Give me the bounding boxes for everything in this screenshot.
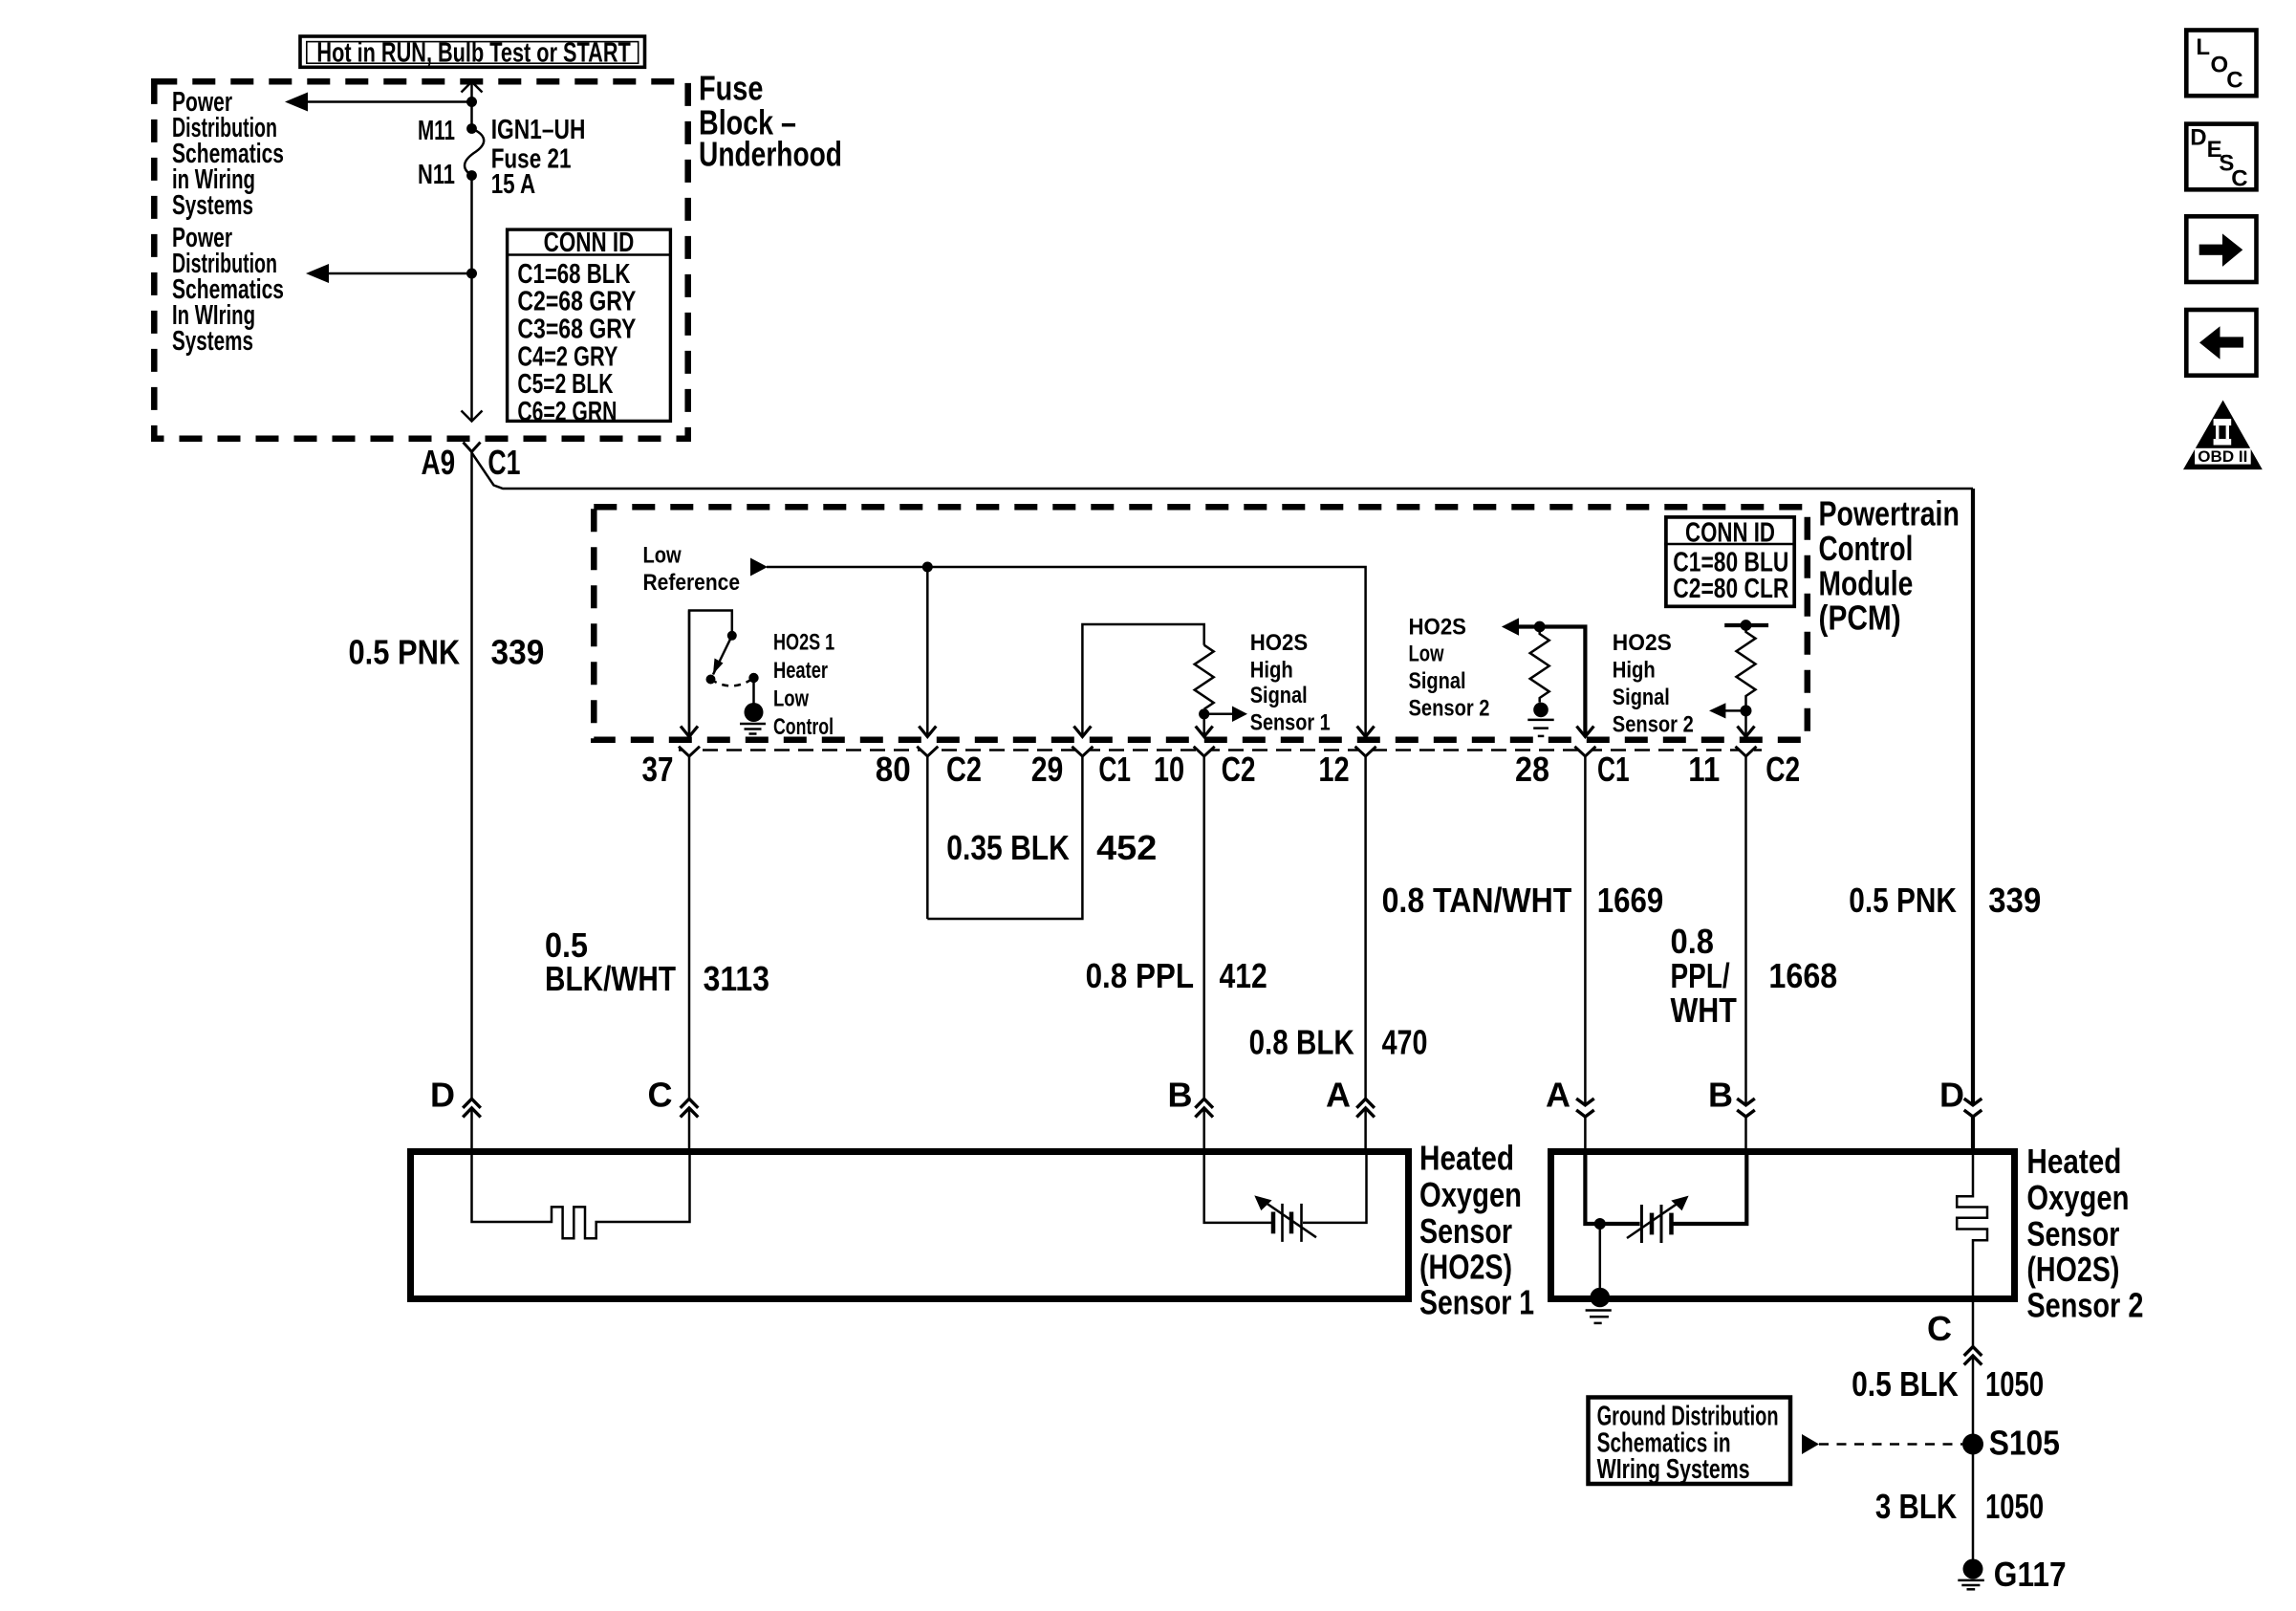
wire: R1 tap arrow out bbox=[1204, 707, 1247, 723]
svg-text:Signal: Signal bbox=[1409, 668, 1466, 694]
svg-text:HO2S 1: HO2S 1 bbox=[773, 630, 834, 656]
svg-text:Heated: Heated bbox=[2026, 1142, 2121, 1181]
svg-text:Powertrain: Powertrain bbox=[1819, 494, 1960, 533]
icon OBD II triangle bbox=[2183, 401, 2263, 470]
power distribution note 2 bbox=[172, 223, 284, 357]
svg-text:D: D bbox=[2190, 124, 2206, 150]
wire: branch arrow to power distribution 1 bbox=[285, 93, 472, 112]
ground G117 bbox=[1958, 1555, 2066, 1594]
icon LOC bbox=[2186, 31, 2256, 97]
connector A9 C1 inline bbox=[422, 443, 521, 483]
svg-text:C2=80 CLR: C2=80 CLR bbox=[1673, 574, 1788, 604]
label 0.5 BLK/WHT 3113 bbox=[545, 925, 769, 998]
svg-text:11: 11 bbox=[1688, 750, 1720, 789]
transistor switch HO2S1 heater low control bbox=[681, 611, 764, 737]
label HO2S High Signal Sensor 1 bbox=[1250, 630, 1331, 736]
svg-text:(PCM): (PCM) bbox=[1819, 599, 1901, 638]
ground distribution note box bbox=[1589, 1398, 1791, 1486]
svg-text:Systems: Systems bbox=[172, 190, 253, 221]
svg-text:470: 470 bbox=[1382, 1022, 1428, 1061]
power distribution note 1 bbox=[172, 87, 284, 221]
svg-text:0.5 BLK: 0.5 BLK bbox=[1852, 1364, 1959, 1404]
resistor R2 HO2S low signal sensor2 bbox=[1530, 627, 1549, 703]
svg-text:N11: N11 bbox=[418, 160, 455, 190]
svg-text:Control: Control bbox=[773, 714, 834, 740]
svg-text:Module: Module bbox=[1819, 563, 1914, 602]
wire: R3 tap arrow out bbox=[1709, 703, 1746, 718]
svg-text:37: 37 bbox=[642, 750, 674, 789]
svg-text:C: C bbox=[2226, 68, 2242, 94]
heater element sensor2 bbox=[1957, 1151, 1987, 1302]
svg-text:Sensor 2: Sensor 2 bbox=[1613, 711, 1694, 737]
svg-text:28: 28 bbox=[1515, 750, 1549, 789]
svg-text:12: 12 bbox=[1318, 750, 1349, 789]
svg-text:OBD II: OBD II bbox=[2198, 448, 2247, 466]
svg-text:0.8 PPL: 0.8 PPL bbox=[1086, 956, 1194, 995]
connector D sensor1 bbox=[430, 1076, 481, 1118]
sense cell battery sensor1 bbox=[1204, 1151, 1367, 1242]
label HO2S Low Signal Sensor 2 bbox=[1409, 614, 1490, 721]
connector pin 10 C2 bbox=[1154, 746, 1256, 1151]
svg-text:0.8 BLK: 0.8 BLK bbox=[1249, 1022, 1354, 1061]
svg-text:B: B bbox=[1708, 1076, 1733, 1115]
svg-text:IGN1–UH: IGN1–UH bbox=[491, 115, 586, 145]
label heated oxygen sensor 1 bbox=[1419, 1138, 1534, 1321]
connector B sensor2 bbox=[1708, 1076, 1755, 1118]
svg-text:Signal: Signal bbox=[1613, 685, 1670, 710]
CONN ID table fuse block bbox=[506, 228, 672, 427]
svg-text:C2: C2 bbox=[1222, 750, 1256, 789]
heater element sensor1 bbox=[472, 1151, 690, 1238]
wire: pin37 drop inside PCM bbox=[688, 611, 691, 737]
svg-text:C1: C1 bbox=[1597, 750, 1630, 789]
svg-text:339: 339 bbox=[491, 633, 545, 672]
svg-text:Systems: Systems bbox=[172, 326, 253, 357]
connector C sensor2 bottom bbox=[1927, 1302, 1982, 1559]
wire: low reference rail with source arrow bbox=[750, 558, 1375, 737]
label heated oxygen sensor 2 bbox=[2026, 1142, 2143, 1324]
svg-text:15 A: 15 A bbox=[491, 169, 536, 200]
label 0.5 PNK 339 bbox=[349, 633, 545, 672]
svg-text:WHT: WHT bbox=[1671, 991, 1737, 1030]
connector pin 37 bbox=[642, 746, 701, 1151]
ground: driver solid state ground bbox=[740, 724, 766, 734]
svg-text:0.5 PNK: 0.5 PNK bbox=[1849, 881, 1957, 920]
svg-text:High: High bbox=[1250, 657, 1293, 683]
CONN ID table PCM bbox=[1664, 517, 1796, 606]
resistor R3 HO2S high signal sensor2 bbox=[1737, 625, 1756, 706]
label 0.5 BLK 1050 bbox=[1852, 1364, 2044, 1404]
connector D sensor2 bbox=[1939, 1076, 1982, 1118]
label 0.8 TAN/WHT 1669 bbox=[1382, 881, 1664, 920]
splice dot R1 tap bbox=[1199, 708, 1209, 719]
svg-text:(HO2S): (HO2S) bbox=[1419, 1247, 1512, 1286]
wire: sensor2 low to case ground bbox=[1599, 1224, 1602, 1295]
svg-text:80: 80 bbox=[876, 750, 911, 789]
svg-text:D: D bbox=[430, 1076, 455, 1115]
label 0.8 PPL 412 bbox=[1086, 956, 1267, 995]
wire: pin11 stub bar bbox=[1724, 623, 1768, 627]
svg-text:C2: C2 bbox=[946, 750, 982, 789]
splice dot R3 bottom bbox=[1741, 705, 1752, 716]
svg-text:Control: Control bbox=[1819, 529, 1914, 568]
svg-text:C5=2 BLK: C5=2 BLK bbox=[517, 369, 613, 400]
svg-text:L: L bbox=[2196, 34, 2210, 60]
svg-text:M11: M11 bbox=[418, 116, 455, 146]
svg-text:0.8 TAN/WHT: 0.8 TAN/WHT bbox=[1382, 881, 1572, 920]
svg-text:Sensor: Sensor bbox=[2026, 1214, 2119, 1253]
svg-text:Oxygen: Oxygen bbox=[1419, 1175, 1522, 1214]
svg-text:3113: 3113 bbox=[704, 959, 769, 998]
wire: dashed link to ground distribution bbox=[1802, 1434, 1962, 1454]
svg-text:Signal: Signal bbox=[1250, 683, 1308, 708]
svg-text:C6=2 GRN: C6=2 GRN bbox=[517, 397, 617, 427]
connector pin 28 C1 bbox=[1515, 746, 1630, 1151]
svg-text:1050: 1050 bbox=[1985, 1364, 2044, 1404]
svg-text:HO2S: HO2S bbox=[1409, 614, 1467, 640]
svg-text:1668: 1668 bbox=[1768, 956, 1837, 995]
svg-text:Low: Low bbox=[643, 543, 682, 569]
svg-text:C2=68 GRY: C2=68 GRY bbox=[517, 287, 636, 317]
wire: right PNK feed vertical bbox=[1971, 489, 1975, 1151]
wire: branch arrow to power distribution 2 bbox=[306, 264, 472, 283]
splice dot R3 top bbox=[1741, 620, 1752, 631]
ground: R2 solid state ground bbox=[1527, 703, 1553, 736]
svg-text:0.35 BLK: 0.35 BLK bbox=[946, 828, 1070, 867]
svg-text:Oxygen: Oxygen bbox=[2026, 1178, 2129, 1217]
svg-text:Heater: Heater bbox=[773, 658, 828, 684]
svg-text:Low: Low bbox=[1409, 642, 1445, 667]
wire: R3 to pin 11 bbox=[1738, 710, 1755, 736]
svg-text:29: 29 bbox=[1031, 750, 1064, 789]
connector B sensor1 bbox=[1168, 1076, 1214, 1118]
svg-text:G117: G117 bbox=[1994, 1555, 2067, 1594]
svg-text:C: C bbox=[1927, 1309, 1952, 1348]
connector A sensor1 bbox=[1326, 1076, 1375, 1118]
svg-text:0.5 PNK: 0.5 PNK bbox=[349, 633, 461, 672]
svg-text:A: A bbox=[1326, 1076, 1351, 1115]
svg-text:Reference: Reference bbox=[643, 570, 741, 596]
node Low Reference label bbox=[643, 543, 741, 596]
svg-text:3 BLK: 3 BLK bbox=[1875, 1487, 1957, 1526]
wire: 0.35 BLK 452 loop bbox=[927, 756, 1157, 919]
label 0.5 PNK 339 right bbox=[1849, 881, 2041, 920]
svg-text:A: A bbox=[1546, 1076, 1570, 1115]
svg-text:HO2S: HO2S bbox=[1613, 630, 1672, 656]
wire: main feed vertical with end arrows bbox=[462, 82, 483, 422]
splice dot R2 top bbox=[1534, 621, 1546, 633]
svg-text:High: High bbox=[1613, 658, 1656, 684]
svg-text:C2: C2 bbox=[1765, 750, 1800, 789]
svg-text:HO2S: HO2S bbox=[1250, 630, 1309, 656]
svg-text:BLK/WHT: BLK/WHT bbox=[545, 959, 676, 998]
icon arrow left bbox=[2186, 310, 2256, 376]
label 0.8 BLK 470 bbox=[1249, 1022, 1428, 1061]
sense cell battery sensor2 bbox=[1585, 1151, 1746, 1243]
connector pin 11 C2 bbox=[1688, 746, 1800, 1151]
connector pin 12 bbox=[1318, 746, 1375, 1151]
svg-text:Sensor: Sensor bbox=[1419, 1211, 1512, 1251]
fuse F21 IGN1-UH 15A bbox=[418, 115, 585, 200]
fuse block underhood dashed box bbox=[154, 81, 687, 438]
svg-text:1669: 1669 bbox=[1597, 881, 1664, 920]
splice dot M11 feed bbox=[466, 97, 477, 107]
svg-text:C3=68 GRY: C3=68 GRY bbox=[517, 315, 636, 345]
wire: branch to right PNK feed bbox=[472, 453, 1974, 490]
splice dot lower branch bbox=[466, 269, 477, 279]
wire: loop pin29 to resistor R1 bbox=[1073, 624, 1203, 737]
svg-text:PPL/: PPL/ bbox=[1671, 956, 1730, 995]
wire: 0.5 PNK 339 left vertical bbox=[470, 452, 473, 1152]
svg-text:C: C bbox=[2231, 165, 2247, 191]
PCM dashed box bbox=[594, 507, 1808, 740]
svg-text:412: 412 bbox=[1220, 956, 1267, 995]
ground: sensor2 case ground bbox=[1586, 1288, 1612, 1323]
PCM connector dashed line bbox=[679, 749, 1762, 751]
label 0.8 PPL/WHT 1668 bbox=[1671, 922, 1838, 1030]
connector A sensor2 bbox=[1546, 1076, 1594, 1118]
splice dot low reference to pin 80 bbox=[922, 562, 933, 573]
fuse block label bbox=[699, 69, 842, 174]
svg-text:Sensor 1: Sensor 1 bbox=[1250, 710, 1331, 736]
splice S105 bbox=[1962, 1423, 2060, 1462]
wire: low reference drop to pin 80 bbox=[919, 567, 936, 737]
icon arrow right bbox=[2186, 216, 2256, 282]
connector C sensor1 bbox=[648, 1076, 699, 1118]
wire: R1 to pin10 bbox=[1196, 709, 1213, 737]
resistor R1 HO2S high signal sensor1 bbox=[1195, 645, 1214, 709]
icon DESC bbox=[2186, 124, 2256, 192]
svg-text:Hot in RUN, Bulb Test or START: Hot in RUN, Bulb Test or START bbox=[316, 37, 631, 68]
svg-text:Sensor 1: Sensor 1 bbox=[1419, 1283, 1534, 1322]
svg-text:Sensor 2: Sensor 2 bbox=[1409, 696, 1490, 722]
svg-text:C: C bbox=[648, 1076, 673, 1115]
svg-text:WIring Systems: WIring Systems bbox=[1597, 1454, 1750, 1485]
svg-text:D: D bbox=[1939, 1076, 1964, 1115]
PCM label bbox=[1819, 494, 1960, 638]
svg-text:A9: A9 bbox=[422, 443, 456, 482]
svg-text:CONN ID: CONN ID bbox=[544, 228, 635, 258]
label HO2S 1 Heater Low Control bbox=[773, 630, 834, 741]
HO2S sensor 2 box bbox=[1551, 1152, 2015, 1299]
connector pin 80 C2 bbox=[876, 746, 982, 919]
svg-text:(HO2S): (HO2S) bbox=[2026, 1250, 2119, 1289]
wire: pin28 branch with arrow bbox=[1502, 618, 1594, 736]
svg-text:C1: C1 bbox=[487, 443, 520, 482]
hot feed title box bbox=[300, 36, 645, 68]
svg-text:Fuse: Fuse bbox=[699, 69, 763, 108]
svg-text:CONN ID: CONN ID bbox=[1685, 517, 1775, 548]
svg-text:C1: C1 bbox=[1098, 750, 1131, 789]
svg-text:Low: Low bbox=[773, 686, 810, 712]
connector pin 29 C1 bbox=[1031, 746, 1131, 789]
svg-text:10: 10 bbox=[1154, 750, 1184, 789]
svg-text:Sensor 2: Sensor 2 bbox=[2026, 1285, 2143, 1324]
svg-text:Underhood: Underhood bbox=[699, 135, 842, 174]
svg-text:B: B bbox=[1168, 1076, 1193, 1115]
HO2S sensor 1 box bbox=[411, 1152, 1409, 1299]
splice dot sensor2 low bbox=[1594, 1218, 1606, 1230]
svg-text:452: 452 bbox=[1096, 828, 1157, 867]
svg-text:1050: 1050 bbox=[1985, 1487, 2044, 1526]
svg-text:S105: S105 bbox=[1989, 1423, 2060, 1462]
svg-text:339: 339 bbox=[1988, 881, 2041, 920]
label HO2S High Signal Sensor 2 bbox=[1613, 630, 1694, 737]
svg-text:C4=2 GRY: C4=2 GRY bbox=[517, 341, 617, 372]
svg-text:C1=68 BLK: C1=68 BLK bbox=[517, 259, 630, 290]
label 3 BLK 1050 bbox=[1875, 1487, 2044, 1526]
svg-text:Heated: Heated bbox=[1419, 1138, 1514, 1177]
